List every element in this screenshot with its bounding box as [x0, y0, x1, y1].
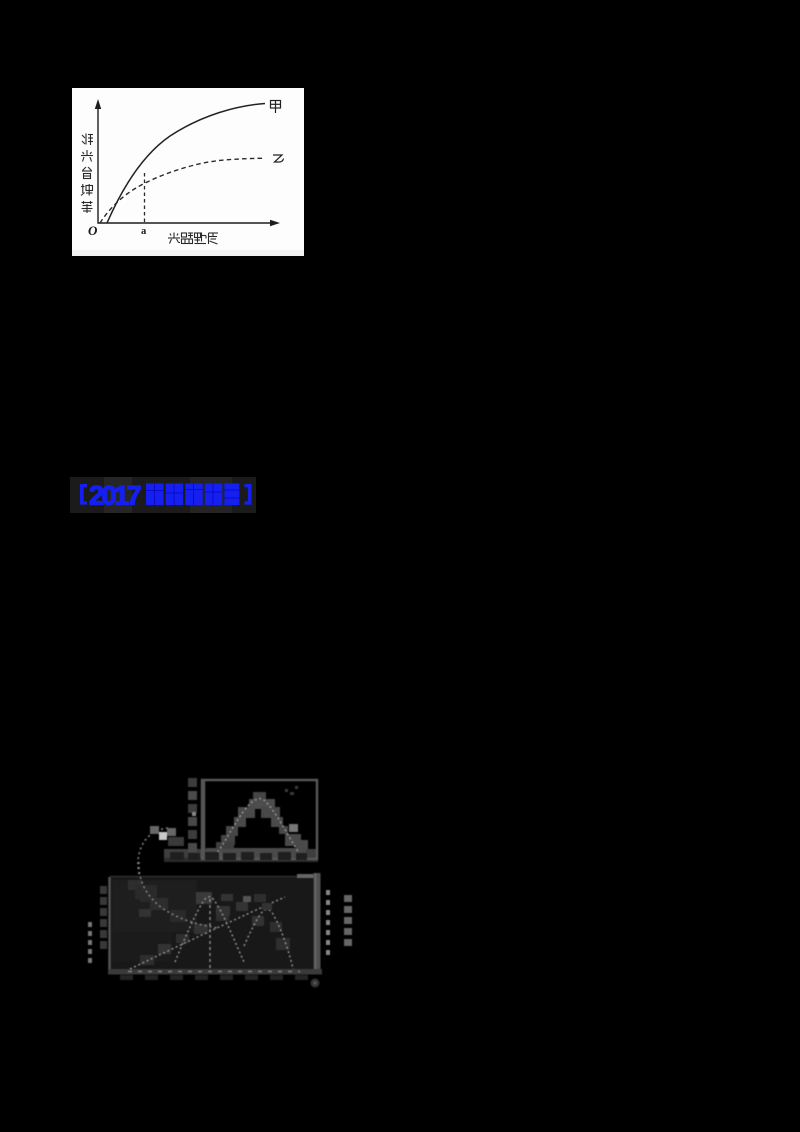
- svg-text:a: a: [141, 226, 147, 237]
- svg-text:2017: 2017: [89, 481, 141, 511]
- svg-text:O: O: [88, 223, 98, 238]
